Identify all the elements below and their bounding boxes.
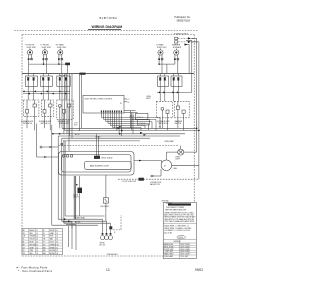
junction bus row left (23, 90, 70, 92)
harness elbow wire left (37, 124, 59, 158)
svg-text:GROUND: GROUND (162, 200, 170, 202)
svg-text:BAKE ELEMENT 2500W: BAKE ELEMENT 2500W (90, 165, 109, 168)
svg-text:5995370183: 5995370183 (177, 19, 191, 22)
power terminal block TB1 (100, 233, 113, 247)
svg-text:14: 14 (56, 236, 58, 238)
svg-text:SWITCH RR: SWITCH RR (59, 123, 69, 125)
right riser L1 (192, 38, 197, 152)
drop wires to infinite switches (27, 86, 29, 100)
svg-text:RD 12: RD 12 (132, 119, 137, 121)
svg-text:BL: BL (23, 242, 25, 244)
svg-text:# - Fast-Moving Parts: # - Fast-Moving Parts (17, 266, 48, 270)
svg-text:18: 18 (56, 253, 58, 255)
svg-text:316080140: 316080140 (107, 254, 119, 256)
node J6 (34, 90, 36, 92)
svg-text:ORNGE: ORNGE (29, 236, 35, 238)
node J10 (59, 90, 61, 92)
svg-text:BEFORE SERVICING UNIT: BEFORE SERVICING UNIT (165, 209, 186, 211)
node J7 (40, 93, 42, 95)
node J8 (46, 90, 48, 92)
svg-text:W NEUTRAL: W NEUTRAL (75, 217, 85, 220)
line L2 entry (175, 41, 198, 43)
svg-text:RD/WH: RD/WH (50, 250, 56, 252)
svg-text:YELLW: YELLW (29, 239, 35, 241)
svg-text:BK RD: BK RD (75, 222, 81, 224)
svg-text:09/02: 09/02 (195, 268, 203, 272)
harness horizontals to terminal block (65, 215, 105, 217)
fan-out wires to right (101, 118, 160, 131)
legend pointer wires (63, 221, 72, 223)
oven thermostat SW5 (174, 101, 189, 130)
surface unit receptacle RF (26, 45, 37, 65)
node riser L2 (198, 129, 200, 131)
svg-text:BLOCK: BLOCK (100, 245, 107, 247)
svg-text:VENT: VENT (146, 98, 151, 100)
vertical harness drops (51, 125, 53, 225)
svg-text:LT FRT UNIT: LT FRT UNIT (164, 251, 173, 253)
svg-text:120V 40W: 120V 40W (180, 256, 188, 258)
svg-text:240V 1200W: 240V 1200W (180, 254, 190, 256)
notes rating table (163, 240, 196, 259)
surface unit receptacle RR (56, 44, 67, 74)
svg-text:WB: WB (43, 247, 46, 249)
wire link row right (159, 63, 175, 65)
svg-text:SWITCH LF: SWITCH LF (41, 123, 50, 125)
svg-text:TOD 2: TOD 2 (139, 123, 145, 125)
surface switch block S1 (25, 74, 37, 87)
broil element HE1 (94, 156, 100, 159)
latch switch SW7 (101, 175, 110, 221)
oven cavity outline (59, 152, 135, 176)
node J12 (158, 91, 160, 93)
svg-text:WIRING DIAGRAM: WIRING DIAGRAM (92, 25, 123, 29)
receptacle top stubs (29, 48, 31, 50)
svg-text:13: 13 (106, 268, 110, 272)
EOC terminal pins (101, 110, 122, 115)
svg-text:SURF UNIT: SURF UNIT (157, 47, 167, 49)
surface switch block S3 (57, 74, 70, 87)
surface switch block S4 (158, 74, 169, 87)
svg-text:CODE: CODE (178, 237, 183, 239)
surface switch block S5 (171, 74, 182, 87)
neutral stub (113, 215, 121, 230)
svg-text:ELEMENT: ELEMENT (173, 47, 182, 49)
svg-text:SURF UNIT: SURF UNIT (42, 47, 52, 49)
fuse F1 (65, 63, 70, 66)
svg-text:SURF UNIT: SURF UNIT (27, 47, 37, 49)
svg-text:POWER SUPPLY: POWER SUPPLY (174, 34, 189, 36)
right riser L2 (192, 42, 199, 179)
svg-text:BLUE: BLUE (29, 242, 33, 244)
svg-text:BROIL ELEM: BROIL ELEM (164, 246, 174, 248)
svg-text:P1: P1 (120, 103, 122, 105)
convection fan motor M1 (161, 152, 199, 171)
svg-text:SURF UNIT: SURF UNIT (57, 47, 67, 49)
infinite switch SW2 (41, 100, 54, 130)
broil feed drops (96, 134, 98, 156)
notes body paragraph 2 (164, 224, 192, 234)
svg-text:240V 3400W: 240V 3400W (180, 246, 190, 248)
EOC right stubs (124, 98, 127, 100)
svg-text:18: 18 (36, 250, 38, 252)
svg-text:L1: L1 (36, 230, 38, 232)
arrow splice A2 (44, 156, 47, 158)
svg-text:WH/BK: WH/BK (50, 247, 56, 249)
wire color legend table (22, 229, 63, 256)
oven selector switch SW4 (156, 101, 172, 130)
bake element box (84, 162, 131, 170)
notes body paragraph 1 (164, 212, 196, 223)
svg-text:BK/WH: BK/WH (50, 253, 56, 255)
oven inner liner (62, 155, 132, 173)
dashed cabinet border (22, 34, 194, 36)
svg-text:BLB71FBA: BLB71FBA (100, 16, 118, 20)
EOC feed wires (79, 74, 81, 132)
svg-text:BK W: BK W (75, 134, 80, 136)
svg-text:BK 12: BK 12 (130, 116, 134, 118)
line L1 entry (175, 37, 195, 39)
wire to bus (28, 64, 30, 73)
main wiring bundle (62, 127, 197, 129)
arrow splices on bundle (118, 127, 121, 129)
svg-text:FAN MOTOR: FAN MOTOR (150, 183, 161, 186)
node J11 (65, 93, 67, 95)
svg-text:WIRING SHOWN WITH DOOR CLOSED: WIRING SHOWN WITH DOOR CLOSED (164, 212, 194, 214)
svg-text:OR RD: OR RD (95, 136, 101, 138)
fan feed wire (150, 175, 161, 177)
svg-text:BROIL 3400W: BROIL 3400W (102, 158, 113, 160)
node J1 (42, 63, 44, 65)
infinite switch SW1 (23, 100, 39, 130)
svg-text:14: 14 (36, 239, 38, 241)
dashed fold line top (14, 30, 198, 32)
oven harness double bar (73, 176, 75, 219)
door switch contacts inside oven (63, 155, 65, 157)
svg-text:14: 14 (36, 242, 38, 244)
notes rule (163, 223, 196, 225)
svg-text:TOD 1: TOD 1 (137, 117, 143, 119)
surface switch block S2 (40, 74, 52, 87)
relay block K1 (124, 111, 149, 134)
svg-text:SCREW: SCREW (166, 203, 172, 205)
svg-text:RT FRT UNIT: RT FRT UNIT (164, 249, 174, 251)
svg-text:16: 16 (56, 239, 58, 241)
node J15 (176, 91, 178, 93)
svg-text:VT: VT (43, 242, 45, 244)
svg-text:VIOLT: VIOLT (50, 242, 55, 244)
right riser N (185, 44, 190, 46)
notes panel (163, 203, 196, 259)
notes oval stamp (177, 236, 186, 239)
svg-text:SWITCH RF: SWITCH RF (23, 123, 32, 125)
svg-text:L2: L2 (36, 233, 38, 235)
svg-text:WHITE WIRE - N GREEN - GROUND: WHITE WIRE - N GREEN - GROUND (164, 228, 192, 230)
surface unit receptacle LR (156, 44, 167, 74)
arrow splice A5 (50, 146, 53, 148)
notes header (168, 203, 191, 205)
EOC pin drop wires (101, 115, 121, 136)
arrow splice A4 (68, 220, 71, 222)
svg-text:DOOR LIGHT SW: DOOR LIGHT SW (122, 181, 136, 183)
infinite switch SW3 (57, 100, 73, 151)
oven light lamp DS1 (175, 146, 197, 161)
riser aux (186, 41, 192, 93)
svg-text:240V 1200W: 240V 1200W (180, 249, 190, 251)
svg-text:* - Non-Illustrated Parts: * - Non-Illustrated Parts (18, 269, 53, 273)
svg-text:GREEN: GREEN (50, 244, 57, 246)
svg-text:16: 16 (56, 247, 58, 249)
vertical feeders left of EOC (61, 74, 63, 129)
wire link row left (29, 63, 68, 65)
arrow splice A1 (59, 133, 62, 135)
node J13 (163, 91, 165, 93)
wire drop right pair (166, 64, 168, 73)
warmer element receptacle (172, 44, 182, 74)
node J14 (172, 91, 174, 93)
node J4 (23, 90, 25, 92)
door light switch SW6 (139, 178, 144, 181)
dashed lamp feed (59, 145, 178, 147)
svg-text:LIGHT: LIGHT (175, 159, 180, 161)
electronic oven control U1 (83, 95, 124, 113)
svg-text:18: 18 (56, 250, 58, 252)
junction bus row right (157, 91, 192, 93)
node J9 (52, 93, 54, 95)
svg-text:OVEN LAMP: OVEN LAMP (164, 140, 175, 143)
arrow splices near TOD (119, 126, 122, 128)
main bus L1 (22, 73, 194, 75)
terminal block drops (102, 219, 104, 234)
svg-text:YL: YL (23, 239, 25, 241)
svg-text:16: 16 (36, 247, 38, 249)
node bundle B (52, 133, 54, 135)
node open O1 (40, 146, 42, 148)
svg-text:16: 16 (56, 242, 58, 244)
node J5 (28, 93, 30, 95)
door latch motor M2 (73, 176, 82, 216)
fan inlet wire (134, 160, 162, 162)
svg-text:WHITE: WHITE (50, 230, 55, 232)
arrow splice A3 (64, 218, 67, 220)
svg-text:16: 16 (36, 244, 38, 246)
surface unit receptacle LF (41, 45, 52, 74)
node J2 (58, 63, 60, 65)
node open O2 (61, 143, 63, 145)
svg-text:L1: L1 (128, 99, 130, 101)
svg-text:12: 12 (56, 233, 58, 235)
svg-text:14: 14 (36, 236, 38, 238)
svg-text:18: 18 (36, 253, 38, 255)
door switch wire (118, 178, 199, 180)
node J3 (158, 63, 160, 65)
splice P1 on bus (80, 73, 86, 75)
svg-text:SWITCH: SWITCH (175, 123, 182, 125)
svg-text:ELECTRONIC OVEN CONTROL: ELECTRONIC OVEN CONTROL (85, 98, 113, 100)
svg-text:240V 1800W: 240V 1800W (180, 251, 190, 253)
node riser L1 (196, 127, 198, 129)
svg-text:240V 2500W: 240V 2500W (180, 244, 190, 246)
